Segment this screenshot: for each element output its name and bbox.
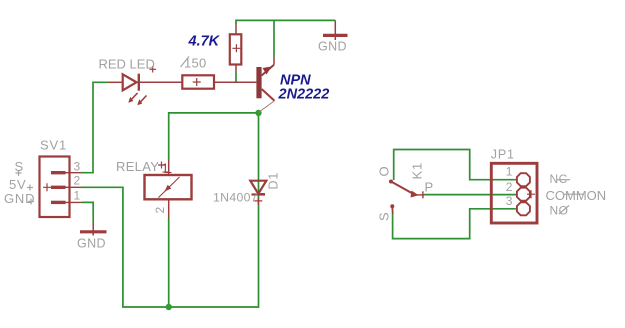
svg-text:2N2222: 2N2222 (278, 87, 330, 103)
svg-text:RED LED: RED LED (99, 57, 155, 72)
svg-text:1: 1 (506, 165, 513, 179)
svg-text:2: 2 (74, 174, 81, 188)
svg-text:5V: 5V (9, 177, 27, 192)
svg-text:D1: D1 (267, 172, 281, 190)
svg-text:4.7K: 4.7K (188, 33, 221, 49)
svg-text:O: O (377, 166, 392, 177)
svg-text:3: 3 (506, 194, 513, 208)
svg-text:JP1: JP1 (491, 148, 515, 162)
svg-text:NO: NO (550, 204, 569, 218)
svg-text:1: 1 (74, 189, 81, 203)
svg-text:RELAY: RELAY (116, 159, 159, 174)
svg-text:P: P (425, 180, 434, 195)
svg-text:K1: K1 (410, 162, 425, 180)
svg-text:COMMON: COMMON (546, 188, 607, 203)
svg-text:NC: NC (550, 172, 568, 186)
svg-text:2: 2 (506, 180, 513, 194)
svg-text:1: 1 (162, 161, 169, 176)
svg-text:2: 2 (153, 206, 167, 213)
svg-text:GND: GND (318, 40, 347, 54)
svg-text:S: S (15, 159, 24, 174)
svg-text:1N4007: 1N4007 (213, 190, 258, 204)
svg-text:GND: GND (77, 236, 106, 250)
svg-text:3: 3 (74, 160, 81, 174)
svg-text:SV1: SV1 (40, 137, 67, 152)
svg-text:S: S (377, 212, 392, 221)
